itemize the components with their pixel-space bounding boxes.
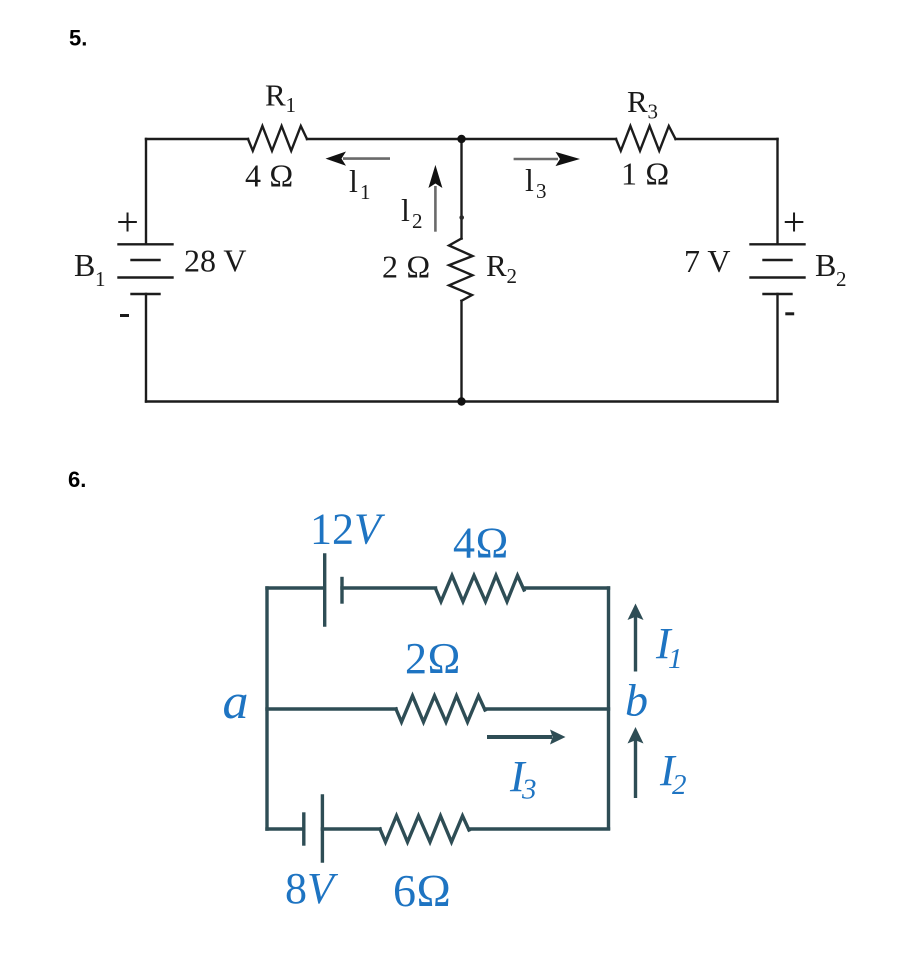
svg-text:b: b	[625, 675, 648, 726]
wire: right vertical (b branch)	[607, 588, 610, 829]
battery 8V long plate	[321, 796, 324, 861]
resistor R2 zigzag	[449, 239, 473, 301]
wire: left vertical upper (B1 top to top-left corner)	[145, 139, 147, 244]
wire: middle branch lower (R2 to bottom junction)	[460, 301, 462, 402]
battery B2 plate long 2	[751, 276, 805, 278]
resistor R3 zigzag	[616, 126, 676, 151]
svg-text:2: 2	[412, 209, 423, 233]
svg-text:1: 1	[95, 267, 106, 291]
current arrow I2 (up-pointing)	[428, 165, 442, 232]
wire: resistor 4ohm to top-right corner	[524, 586, 609, 589]
label minus B1	[120, 314, 129, 317]
battery B1 plate long 2	[119, 276, 173, 278]
svg-text:4Ω: 4Ω	[453, 519, 509, 568]
current arrow I3 (right-pointing)	[514, 152, 580, 166]
battery B1 plate short	[132, 259, 160, 261]
battery 8V short plate	[302, 814, 305, 844]
resistor R1 zigzag	[248, 126, 307, 151]
battery B2 plate short 2	[764, 293, 792, 295]
battery B1 plate short 2	[132, 293, 160, 295]
label I3	[525, 162, 547, 203]
svg-text:l: l	[525, 162, 534, 198]
label I1 (circuit 6)	[655, 619, 683, 675]
svg-text:l: l	[349, 163, 358, 199]
resistor 2ohm zigzag	[396, 696, 485, 722]
label minus B2	[785, 312, 794, 315]
wire: R3 to top-right corner	[676, 138, 778, 140]
svg-text:2: 2	[672, 769, 687, 801]
svg-text:1: 1	[286, 93, 297, 117]
svg-text:l: l	[401, 192, 410, 228]
svg-text:a: a	[223, 673, 249, 729]
svg-text:12V: 12V	[310, 505, 386, 554]
svg-text:8V: 8V	[285, 864, 339, 913]
current arrow I3 (circuit 6, right)	[487, 730, 566, 745]
current arrow I2 (circuit 6, up)	[628, 727, 644, 798]
svg-text:R: R	[627, 84, 648, 119]
svg-text:3: 3	[648, 100, 659, 124]
wire: top-left segment to R1	[146, 138, 248, 140]
svg-text:3: 3	[536, 179, 547, 203]
wire: top-left to battery 12V	[267, 586, 322, 589]
junction node bottom (dot)	[457, 397, 465, 405]
label B1	[74, 247, 106, 291]
wire: bottom-left to battery 8V	[267, 827, 302, 830]
wire: bottom horizontal	[146, 400, 778, 402]
wire: left vertical lower (B1 bottom to bottom-left corner)	[145, 294, 147, 402]
svg-text:5.: 5.	[69, 26, 87, 51]
svg-text:R: R	[265, 78, 286, 113]
label I1	[349, 163, 371, 204]
svg-text:3: 3	[521, 774, 537, 806]
svg-text:B: B	[815, 247, 836, 283]
wire: middle branch right (2ohm to b)	[485, 707, 609, 710]
current arrow I1 (left-pointing)	[326, 152, 391, 166]
label I3 (circuit 6)	[509, 752, 537, 806]
current arrow I1 (circuit 6, up)	[628, 604, 644, 672]
resistor 4ohm zigzag	[436, 576, 525, 602]
wire: battery 8V to resistor 6ohm	[322, 827, 380, 830]
battery 12V long plate	[323, 555, 326, 625]
svg-text:1: 1	[668, 643, 683, 675]
svg-text:6Ω: 6Ω	[393, 865, 451, 916]
label I2	[401, 192, 423, 233]
wire: right vertical upper (top-right corner to B2)	[776, 139, 778, 244]
label B2	[815, 247, 847, 291]
svg-text:1 Ω: 1 Ω	[621, 156, 670, 192]
svg-text:2Ω: 2Ω	[405, 634, 461, 683]
label I2 (circuit 6)	[659, 746, 687, 801]
svg-text:2 Ω: 2 Ω	[382, 249, 431, 285]
svg-text:2: 2	[507, 264, 518, 288]
label R3	[627, 84, 658, 124]
battery B1 plate long top	[119, 243, 173, 245]
label R2	[486, 248, 517, 288]
battery B2 plate short	[764, 259, 792, 261]
svg-text:6.: 6.	[68, 467, 86, 492]
wire: right vertical lower (B2 to bottom-right corner)	[776, 294, 778, 402]
svg-text:2: 2	[836, 267, 847, 291]
junction node top (dot)	[457, 135, 465, 143]
svg-text:B: B	[74, 247, 95, 283]
svg-text:R: R	[486, 248, 507, 283]
label R1	[265, 78, 296, 118]
svg-text:28 V: 28 V	[184, 243, 247, 279]
svg-text:+: +	[783, 200, 806, 245]
wire: R1 to top junction	[307, 138, 462, 140]
wire: battery 12V to resistor 4ohm	[342, 586, 436, 589]
wire: left vertical (a branch)	[265, 588, 268, 829]
wire: middle branch left (a to 2ohm)	[267, 707, 396, 710]
svg-text:7 V: 7 V	[684, 243, 731, 279]
wire blemish on middle branch	[459, 215, 464, 220]
battery 12V short plate	[340, 579, 343, 603]
resistor 6ohm zigzag	[380, 816, 469, 842]
svg-text:4 Ω: 4 Ω	[245, 158, 294, 194]
wire: resistor 6ohm to bottom-right corner	[469, 827, 609, 830]
wire: top junction to R3	[462, 138, 617, 140]
svg-text:1: 1	[360, 180, 371, 204]
wire: middle branch upper (top junction to R2)	[460, 139, 462, 239]
battery B2 plate long top	[751, 243, 805, 245]
svg-text:+: +	[116, 200, 139, 245]
